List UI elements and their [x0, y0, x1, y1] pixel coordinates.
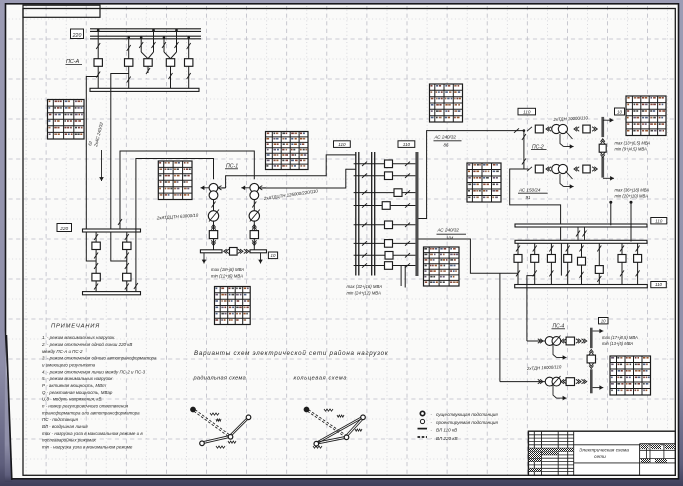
PS-3 feeder row 7 — [354, 252, 416, 260]
PS-3 feeder row 3 — [354, 189, 416, 197]
PS-1 10kV bus right segment — [250, 250, 267, 253]
table PS-2 right data — [626, 96, 666, 136]
sheet corner distortion bottom-left — [5, 330, 13, 482]
svg-text:Р - активная мощность, МВт: Р - активная мощность, МВт — [42, 383, 106, 388]
PS-2 bay T1 10kV tap arrow — [560, 134, 574, 149]
220 yard bay at x=126.8 — [123, 232, 131, 292]
legend existing substation — [420, 411, 424, 415]
table PS-4 data — [610, 356, 651, 395]
PS-4 bus1-bus2 stub links — [577, 227, 579, 240]
PS-4 bar section breaker — [587, 350, 595, 369]
PS-4 lower bar — [515, 285, 648, 288]
svg-text:сети: сети — [594, 455, 606, 460]
PS-4 transformer bay T2 — [500, 376, 587, 386]
PS-3 right collector bar — [415, 152, 418, 276]
wire PS-3 to PS-1 T2 tertiary — [258, 169, 356, 188]
PS-4 outgoing arrow lower — [593, 387, 604, 389]
PS-3 feeder row 8 — [354, 262, 416, 270]
PS-1 load arrow left — [203, 253, 205, 264]
PS-4 stub below bus2 from line 91 — [560, 243, 562, 275]
svg-text:max (17+j8,5) МВА: max (17+j8,5) МВА — [602, 335, 638, 340]
PS-2 10kV bar lower segment — [601, 157, 604, 177]
legend projected substation — [420, 419, 424, 423]
PS-A bus coupler bay 3 — [139, 29, 155, 74]
svg-text:трансформатора или автотрансфо: трансформатора или автотрансформатора — [42, 410, 140, 415]
svg-text:max (13+j6,5) МВА: max (13+j6,5) МВА — [615, 140, 651, 145]
PS-A feeder bay 1 with breaker — [94, 29, 102, 89]
wire from PS-1 T1 down through 220 yard — [136, 159, 214, 292]
svg-text:существующая подстанция: существующая подстанция — [436, 412, 498, 417]
direction arrow on line A — [101, 150, 103, 181]
220 yard upper busbar — [83, 229, 141, 232]
svg-text:АС 240/32: АС 240/32 — [437, 228, 460, 233]
svg-text:220: 220 — [72, 33, 82, 39]
svg-text:max (18+j8) МВА: max (18+j8) МВА — [211, 267, 244, 272]
wire line B: PS-A feeder2 to 220 yard — [111, 74, 129, 262]
table PS-1 upper data — [158, 161, 192, 200]
svg-text:ВЛ - воздушная линия: ВЛ - воздушная линия — [42, 424, 88, 429]
ring scheme sketch — [304, 407, 365, 448]
PS-A feeder bay 4 with breaker — [162, 29, 179, 89]
wire from PS-1 T2 down to 220 yard top bus — [120, 151, 254, 229]
PS-4 bay 4 — [564, 243, 572, 284]
svg-text:АС 240/32: АС 240/32 — [434, 135, 457, 140]
PS-4 bay 2 — [531, 243, 539, 284]
table PS-3 right data — [424, 247, 460, 286]
label box 110 (PS-4 bus right lower) — [651, 282, 667, 288]
PS-4 10kV bar lower segment — [590, 369, 593, 393]
legend VL 110 kV — [418, 428, 428, 430]
svg-text:4. - режим отключения лини: 4. - режим отключения линии между ПС-2 и… — [42, 369, 146, 374]
table PS-1 lower data — [215, 287, 251, 325]
svg-text:5. - режим минимальных нагр: 5. - режим минимальных нагрузок — [42, 376, 113, 381]
svg-text:min - нагрузка узла в минималь: min - нагрузка узла в минимальном режиме — [42, 445, 133, 450]
PS-4 incoming stub with dot 2 — [630, 202, 632, 241]
PS-A feeder bay 5 with breaker — [185, 36, 193, 88]
label box 110 (PS-3 right) — [398, 141, 415, 148]
PS-1 T1 LV chain: regulator, breaker — [208, 200, 219, 250]
PS-2 outgoing arrow upper — [603, 119, 614, 121]
PS-4 transformer bay T1 — [527, 336, 587, 346]
svg-text:Варианты схем электрической: Варианты схем электрической сети района … — [194, 350, 389, 357]
frame top-left strip box — [23, 5, 100, 17]
PS-3 feeder row 5 — [354, 221, 416, 229]
PS-4 outgoing arrow upper — [593, 330, 604, 332]
svg-text:104: 104 — [446, 236, 454, 241]
PS-1 load arrow right — [260, 253, 262, 264]
table PS-A data — [48, 100, 85, 140]
PS-3 feeder row 1 — [354, 160, 416, 168]
svg-text:кольцевая схема: кольцевая схема — [294, 376, 348, 382]
label box 110 (PS-3 left) — [334, 141, 351, 148]
label box 110 (PS-4 bus right upper) — [651, 218, 667, 224]
legend VL 220 kV — [418, 436, 428, 438]
wire 110kV line 86: PS-3 to PS-2 — [419, 131, 524, 219]
wire 110kV line 91: PS-2 to PS-4 bus — [510, 169, 561, 242]
svg-text:ВЛ 110 кВ: ВЛ 110 кВ — [436, 428, 457, 433]
svg-text:и имеющего результата: и имеющего результата — [42, 363, 96, 368]
wire PS-3 to PS-1 T1 tertiary — [226, 155, 356, 188]
PS-4 bus 2 — [515, 240, 647, 243]
svg-text:110: 110 — [655, 218, 663, 223]
svg-text:110: 110 — [655, 282, 663, 287]
svg-text:3. - режим отключения одного: 3. - режим отключения одного автотрансфо… — [42, 356, 157, 361]
PS-3 feeder row 2 — [354, 172, 416, 180]
svg-text:U,δ - модуль напряжения, кВ.: U,δ - модуль напряжения, кВ. — [42, 397, 103, 402]
svg-text:220: 220 — [59, 226, 68, 232]
svg-text:радиальная схема: радиальная схема — [193, 376, 247, 382]
PS-1 autotransformer T2 — [241, 183, 266, 199]
busbar PS-A lower section bar — [90, 88, 199, 91]
PS-2 bay T2 10kV tap arrow — [560, 174, 574, 189]
table PS-1 right data — [266, 132, 309, 170]
table PS-3 upper data — [430, 84, 463, 122]
svg-text:91: 91 — [526, 195, 531, 200]
svg-text:110: 110 — [338, 142, 346, 147]
svg-text:min (13+j5) МВА: min (13+j5) МВА — [602, 341, 633, 346]
svg-text:2. - режим отключения одной: 2. - режим отключения одной линии 220 кВ — [41, 341, 132, 347]
PS-3 feeder row 4 — [354, 202, 416, 210]
PS-3 outgoing stubs down — [400, 266, 402, 287]
svg-text:max (32+j16) МВА: max (32+j16) МВА — [347, 284, 383, 289]
PS-4 bay 5 — [578, 243, 586, 284]
svg-text:10: 10 — [617, 109, 622, 114]
220 yard lower busbar — [83, 292, 141, 295]
svg-text:max (36+j18) МВА: max (36+j18) МВА — [615, 187, 650, 192]
PS-4 10kV bar upper segment — [590, 328, 593, 349]
svg-text:110: 110 — [523, 109, 531, 114]
PS-1 10kV bus coupler — [224, 248, 249, 256]
svg-text:послеаварийных режимах: послеаварийных режимах — [42, 437, 97, 443]
PS-1 10kV bus left segment — [200, 250, 222, 253]
PS-4 bay T2 10kV tap arrow — [553, 386, 567, 401]
PS-4 bay 3 — [547, 243, 555, 284]
svg-text:min (9+j4,5) МВА: min (9+j4,5) МВА — [615, 147, 648, 152]
PS-4 branch to T2 — [499, 273, 501, 381]
label box 10 (PS-4) — [599, 318, 609, 324]
svg-text:проектируемая подстанция: проектируемая подстанция — [436, 420, 498, 425]
svg-text:86: 86 — [444, 142, 449, 147]
PS-1 autotransformer T1 — [201, 183, 226, 199]
PS-4 bay 7 — [618, 243, 626, 284]
PS-4 incoming stub with dot 1 — [610, 202, 612, 225]
svg-text:10: 10 — [601, 318, 606, 323]
busbar PS-A bus 2 — [90, 35, 201, 37]
PS-2 transformer bay T2 — [527, 164, 597, 179]
svg-text:min (20+j10) МВА: min (20+j10) МВА — [615, 194, 649, 199]
label box 110 (PS-2) — [518, 108, 536, 115]
PS-2 transformer bay T1 — [527, 124, 597, 139]
svg-text:n - номер регулировочного о: n - номер регулировочного ответвления — [42, 404, 129, 409]
svg-text:ПРИМЕЧАНИЯ: ПРИМЕЧАНИЯ — [51, 324, 100, 330]
wire 110kV line 104: PS-3 to PS-4 — [419, 239, 519, 273]
svg-text:ПС - подстанция: ПС - подстанция — [42, 417, 79, 422]
PS-3 vertical bus pair 1 — [355, 152, 357, 276]
PS-4 branch to T1 — [527, 276, 535, 341]
title block — [528, 431, 675, 475]
PS-4 bay 6 — [595, 243, 603, 284]
220 yard bay at x=96.1 — [92, 232, 100, 292]
svg-text:min (12+j6) МВА: min (12+j6) МВА — [211, 274, 243, 279]
PS-4 bay T1 10kV tap arrow — [553, 345, 567, 360]
PS-A feeder bay 2 with breaker — [125, 36, 133, 88]
PS-4 bay 8 — [634, 243, 642, 284]
radial scheme sketch — [191, 407, 251, 448]
svg-text:10: 10 — [271, 253, 276, 258]
PS-2 outgoing arrow lower — [603, 177, 614, 179]
PS-2 bar section breaker — [599, 139, 606, 158]
svg-text:АС 150/24: АС 150/24 — [518, 187, 541, 192]
label box 10 (PS-2) — [615, 108, 625, 115]
PS-2 wire from line 86 junction down to T2 bay — [523, 131, 525, 169]
label box 10 (PS-1) — [268, 252, 277, 259]
busbar PS-A bus 1 — [90, 28, 201, 30]
PS-1 T2 LV chain: regulator, breaker — [249, 200, 260, 250]
svg-text:110: 110 — [403, 142, 411, 147]
PS-3 feeder row 6 — [354, 240, 416, 248]
label box 220 (PS-A) — [71, 29, 84, 39]
PS-3 vertical bus pair 2 — [371, 152, 373, 276]
svg-text:Электрическая схема: Электрическая схема — [579, 448, 629, 454]
PS-4 bay 1 — [514, 243, 522, 284]
svg-text:min (24+j12) МВА: min (24+j12) МВА — [347, 291, 381, 296]
table PS-2 left data — [467, 163, 501, 202]
label box 220 (yard) — [57, 224, 72, 232]
PS-2 10kV bar upper segment — [601, 117, 604, 137]
wire line A: PS-A feeder1 to 220 yard — [86, 77, 98, 262]
PS-4 bus 1 — [515, 224, 647, 227]
notes list — [41, 335, 157, 449]
svg-text:между ПС-А и ПС-2: между ПС-А и ПС-2 — [42, 349, 83, 354]
svg-text:max - нагрузка узла в максимал: max - нагрузка узла в максимальном режим… — [42, 431, 143, 436]
svg-text:Q - реактивная мощность, МВа: Q - реактивная мощность, МВар — [42, 390, 113, 395]
svg-text:ВЛ 220 кВ: ВЛ 220 кВ — [436, 436, 458, 441]
svg-text:1. - режим максимальных нагр: 1. - режим максимальных нагрузок. — [42, 335, 115, 340]
